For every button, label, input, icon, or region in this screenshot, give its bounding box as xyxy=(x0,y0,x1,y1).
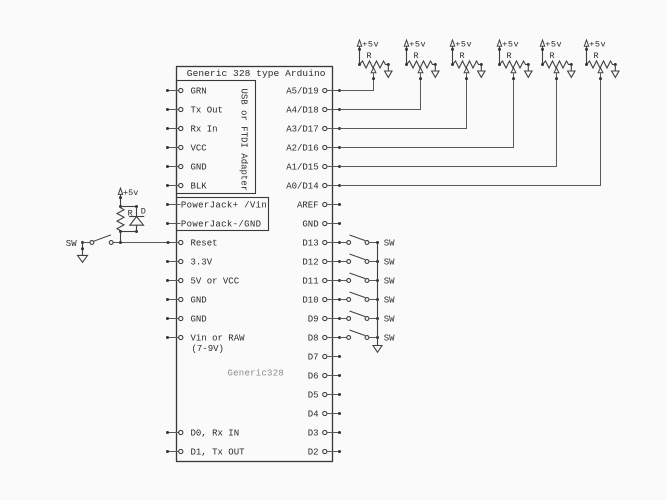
svg-text:+5v: +5v xyxy=(409,40,426,50)
IC U1 Generic 328 type Arduino body xyxy=(177,67,333,462)
PowerJack sub-box xyxy=(177,198,269,231)
svg-text:R: R xyxy=(460,51,465,61)
wire: pot 5 wiper to A1/D15 xyxy=(340,73,559,167)
pin Tx Out (left, row 1) xyxy=(166,106,223,116)
pin VCC (left, row 3) xyxy=(166,144,207,154)
wire: pot 4 wiper to A2/D16 xyxy=(340,73,516,148)
switch SW on D9 xyxy=(340,311,396,325)
svg-text:D10: D10 xyxy=(302,296,318,306)
pin D4 (right, row 17) xyxy=(308,410,341,420)
svg-text:SW: SW xyxy=(384,296,395,306)
svg-text:D4: D4 xyxy=(308,410,319,420)
ground (pot 4) xyxy=(525,65,532,78)
svg-text:SW: SW xyxy=(66,239,77,249)
svg-text:SW: SW xyxy=(384,239,395,249)
wiper arrow (pot 3) xyxy=(464,68,469,73)
wire: pot 6 wiper to A0/D14 xyxy=(340,73,603,186)
svg-text:D5: D5 xyxy=(308,391,319,401)
wiper arrow (pot 6) xyxy=(598,68,603,73)
resistor R (pot 4) xyxy=(500,51,530,68)
resistor R (reset pull-up) xyxy=(117,208,133,232)
wiper arrow (pot 2) xyxy=(418,68,423,73)
pin D10 (right, row 11) xyxy=(302,296,341,306)
wire: reset net to pin xyxy=(113,241,179,244)
svg-text:Generic 328 type Arduino: Generic 328 type Arduino xyxy=(187,68,326,79)
pin A1/D15 (right, row 4) xyxy=(286,163,341,173)
pin AREF (right, row 6) xyxy=(297,201,341,211)
svg-text:GRN: GRN xyxy=(191,87,207,97)
pin Vin or RAW (left, row 13) xyxy=(166,334,245,354)
pin PowerJack-/GND (left, row 7) xyxy=(166,220,261,230)
resistor R (pot 5) xyxy=(543,51,573,68)
resistor R (pot 3) xyxy=(453,51,483,68)
pin D12 (right, row 9) xyxy=(302,258,341,268)
svg-text:R: R xyxy=(594,51,599,61)
wire: switch common bus xyxy=(377,243,379,346)
+5v supply (pot 3) xyxy=(450,40,472,67)
ground (pot 1) xyxy=(385,65,392,78)
pin GND (left, row 12) xyxy=(166,315,207,325)
svg-text:BLK: BLK xyxy=(191,182,208,192)
svg-text:(7-9V): (7-9V) xyxy=(192,344,224,354)
pin D2 (right, row 19) xyxy=(308,448,341,458)
svg-text:D12: D12 xyxy=(302,258,318,268)
svg-text:Tx Out: Tx Out xyxy=(191,106,223,116)
pin D11 (right, row 10) xyxy=(302,277,341,287)
svg-text:Vin or RAW: Vin or RAW xyxy=(191,334,246,344)
svg-text:3.3V: 3.3V xyxy=(191,258,213,268)
pin D1, Tx OUT (left, row 19) xyxy=(166,448,245,458)
svg-text:+5v: +5v xyxy=(545,40,562,50)
svg-text:D9: D9 xyxy=(308,315,319,325)
svg-text:GND: GND xyxy=(191,163,207,173)
pin A4/D18 (right, row 1) xyxy=(286,106,341,116)
switch SW on D13 xyxy=(340,235,396,249)
pin A3/D17 (right, row 2) xyxy=(286,125,341,135)
svg-text:D11: D11 xyxy=(302,277,318,287)
wire: pot 2 wiper to A4/D18 xyxy=(340,73,423,110)
+5v supply (pot 6) xyxy=(584,40,606,67)
pin D0, Rx IN (left, row 18) xyxy=(166,429,239,439)
svg-text:SW: SW xyxy=(384,315,395,325)
svg-text:SW: SW xyxy=(384,258,395,268)
pin D13 (right, row 8) xyxy=(302,239,341,249)
svg-text:D2: D2 xyxy=(308,448,319,458)
svg-text:D8: D8 xyxy=(308,334,319,344)
svg-text:A2/D16: A2/D16 xyxy=(286,144,318,154)
switch SW (reset button) xyxy=(66,235,113,249)
switch SW on D8 xyxy=(340,330,396,344)
svg-text:+5v: +5v xyxy=(589,40,606,50)
ground (pot 2) xyxy=(432,65,439,78)
pin Rx In (left, row 2) xyxy=(166,125,218,135)
svg-text:+5v: +5v xyxy=(362,40,379,50)
svg-text:D0, Rx IN: D0, Rx IN xyxy=(191,429,240,439)
wiper arrow (pot 4) xyxy=(511,68,516,73)
+5v supply (pot 4) xyxy=(497,40,519,67)
pin 3.3V (left, row 9) xyxy=(166,258,213,268)
svg-text:5V or VCC: 5V or VCC xyxy=(191,277,240,287)
svg-text:D7: D7 xyxy=(308,353,319,363)
switch SW on D11 xyxy=(340,273,396,287)
ground (switch bus) xyxy=(373,346,382,353)
pin BLK (left, row 5) xyxy=(166,182,207,192)
svg-text:SW: SW xyxy=(384,277,395,287)
pin GND (left, row 4) xyxy=(166,163,207,173)
pin Reset (left, row 8) xyxy=(179,239,218,249)
pin D9 (right, row 12) xyxy=(308,315,341,325)
pin A2/D16 (right, row 3) xyxy=(286,144,341,154)
svg-text:+5v: +5v xyxy=(455,40,472,50)
wire: pot 1 wiper to A5/D19 xyxy=(340,73,376,91)
svg-text:Reset: Reset xyxy=(191,239,218,249)
svg-text:+5v: +5v xyxy=(502,40,519,50)
pin GRN (left, row 0) xyxy=(166,87,207,97)
svg-text:PowerJack+ /Vin: PowerJack+ /Vin xyxy=(181,201,267,211)
svg-text:D3: D3 xyxy=(308,429,319,439)
ground (reset button) xyxy=(78,243,88,263)
ground (pot 5) xyxy=(568,65,575,78)
pin PowerJack+ /Vin (left, row 6) xyxy=(166,201,267,211)
svg-text:VCC: VCC xyxy=(191,144,208,154)
svg-text:A5/D19: A5/D19 xyxy=(286,87,318,97)
pin A0/D14 (right, row 5) xyxy=(286,182,341,192)
+5v supply (reset pull-up) xyxy=(118,188,138,208)
svg-text:D13: D13 xyxy=(302,239,318,249)
switch SW on D10 xyxy=(340,292,396,306)
+5v supply (pot 5) xyxy=(540,40,562,67)
svg-text:GND: GND xyxy=(302,220,318,230)
ground (pot 6) xyxy=(612,65,619,78)
svg-text:A3/D17: A3/D17 xyxy=(286,125,318,135)
resistor R (pot 6) xyxy=(587,51,617,68)
pin GND (right, row 7) xyxy=(302,220,341,230)
pin 5V or VCC (left, row 10) xyxy=(166,277,240,287)
svg-text:+5v: +5v xyxy=(123,188,138,198)
svg-text:AREF: AREF xyxy=(297,201,319,211)
pin D8 (right, row 13) xyxy=(308,334,341,344)
svg-text:R: R xyxy=(367,51,372,61)
wire: top tie R/D xyxy=(121,205,139,208)
switch SW on D12 xyxy=(340,254,396,268)
diode D (reset) xyxy=(129,207,146,234)
wiper arrow (pot 5) xyxy=(554,68,559,73)
svg-text:D: D xyxy=(141,207,146,217)
resistor R (pot 2) xyxy=(407,51,437,68)
svg-text:A0/D14: A0/D14 xyxy=(286,182,318,192)
USB or FTDI Adapter sub-box xyxy=(177,81,256,194)
svg-text:D1, Tx OUT: D1, Tx OUT xyxy=(191,448,246,458)
pin D7 (right, row 14) xyxy=(308,353,341,363)
svg-text:GND: GND xyxy=(191,315,207,325)
pin D6 (right, row 15) xyxy=(308,372,341,382)
svg-text:SW: SW xyxy=(384,334,395,344)
svg-text:R: R xyxy=(507,51,512,61)
wiper arrow (pot 1) xyxy=(371,68,376,73)
pin D3 (right, row 18) xyxy=(308,429,341,439)
svg-text:A1/D15: A1/D15 xyxy=(286,163,318,173)
svg-text:Generic328: Generic328 xyxy=(228,368,285,378)
svg-text:USB or FTDI Adapter: USB or FTDI Adapter xyxy=(239,89,249,192)
svg-text:R: R xyxy=(414,51,419,61)
svg-text:PowerJack-/GND: PowerJack-/GND xyxy=(181,220,262,230)
svg-text:D6: D6 xyxy=(308,372,319,382)
ground (pot 3) xyxy=(478,65,485,78)
+5v supply (pot 1) xyxy=(357,40,379,67)
pin D5 (right, row 16) xyxy=(308,391,341,401)
pin A5/D19 (right, row 0) xyxy=(286,87,341,97)
resistor R (pot 1) xyxy=(360,51,390,68)
svg-text:GND: GND xyxy=(191,296,207,306)
wire: pot 3 wiper to A3/D17 xyxy=(340,73,469,129)
svg-text:Rx In: Rx In xyxy=(191,125,218,135)
+5v supply (pot 2) xyxy=(404,40,426,67)
svg-text:R: R xyxy=(550,51,555,61)
wire: bottom tie R/D xyxy=(119,230,137,243)
svg-text:A4/D18: A4/D18 xyxy=(286,106,318,116)
pin GND (left, row 11) xyxy=(166,296,207,306)
